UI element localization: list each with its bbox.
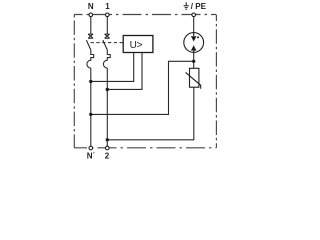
spark gap element (branch N) — [87, 50, 94, 68]
junction on branch N (wire A) — [89, 80, 92, 83]
svg-text:2: 2 — [105, 152, 110, 161]
ground symbol in PE label — [184, 2, 189, 9]
terminal N — [89, 13, 93, 17]
trigger dashed line to monitoring unit — [91, 42, 124, 44]
junction on branch 2 (wire D) — [106, 138, 109, 141]
enclosure dash-dot border top — [74, 14, 216, 16]
enclosure dash-dot border left — [73, 15, 75, 148]
enclosure dash-dot border bottom — [74, 147, 216, 149]
wire B: U> right output to branch 1 — [108, 53, 142, 90]
spark gap element (branch 1) — [103, 50, 110, 68]
svg-text:N: N — [88, 2, 94, 11]
switch blade (branch N) — [86, 40, 90, 50]
wire GDT down to junction and varistor — [193, 52, 195, 68]
wire C: junction to branch N — [92, 61, 193, 114]
gas discharge tube — [184, 33, 204, 53]
terminal 2 (bottom) — [106, 146, 110, 150]
wire branch 1 down to terminal 2 — [106, 68, 108, 146]
terminal PE — [192, 13, 196, 17]
wire terminal N down — [90, 17, 92, 34]
thermal disconnector (branch 1) — [105, 34, 110, 38]
wire branch N down to terminal N' — [90, 68, 92, 146]
svg-text:1: 1 — [105, 2, 110, 11]
enclosure dash-dot border right — [215, 15, 217, 148]
wire terminal PE down to gas discharge tube — [193, 17, 195, 33]
svg-text:>: > — [137, 40, 143, 51]
switch blade (branch 1) — [103, 40, 107, 50]
thermal disconnector (branch N) — [88, 34, 93, 38]
svg-text:/ PE: / PE — [191, 2, 207, 11]
terminal 1 — [106, 13, 110, 17]
wire terminal 1 down — [106, 17, 108, 34]
varistor — [186, 68, 201, 88]
wire D: varistor bottom to branch 2 — [108, 87, 193, 140]
junction on branch N (wire C) — [89, 113, 92, 116]
monitoring unit U> box — [123, 36, 153, 53]
terminal N' (bottom) — [89, 146, 93, 150]
svg-text:N´: N´ — [87, 152, 96, 161]
wire A: U> left output to branch N — [92, 53, 134, 82]
junction GDT/varistor node — [192, 60, 195, 63]
junction on branch 1 (wire B) — [106, 88, 109, 91]
